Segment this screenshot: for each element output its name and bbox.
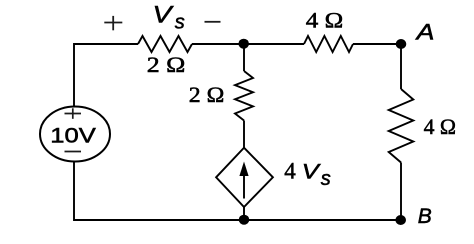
resistor R2 2ohm vertical zigzag	[235, 71, 253, 121]
value label 4Vs for dependent source	[284, 158, 331, 190]
junction dot bottom center node	[239, 215, 250, 225]
wire node A down to resistor R4	[400, 44, 402, 89]
voltage source V1 ellipse	[40, 107, 110, 162]
wire center node to resistor R3	[244, 43, 304, 45]
svg-text:s: s	[321, 168, 331, 190]
wire R1 to center node	[192, 43, 244, 45]
wire R3 to node A	[353, 43, 401, 45]
svg-text:10V: 10V	[50, 124, 95, 147]
svg-text:4 Ω: 4 Ω	[424, 114, 456, 139]
junction dot center top node	[238, 39, 249, 49]
source plus sign	[65, 108, 82, 119]
wire R4 to node B	[400, 163, 402, 221]
label Vs	[153, 2, 185, 34]
wire top-left horizontal from source corner to resistor R1	[74, 44, 138, 107]
dependent source arrow up	[239, 162, 248, 199]
minus polarity mark for Vs	[205, 21, 221, 23]
svg-text:V: V	[302, 160, 321, 183]
source minus sign	[65, 151, 82, 153]
svg-text:2 Ω: 2 Ω	[147, 52, 186, 77]
wire center node down to resistor R2	[243, 44, 245, 71]
svg-text:4: 4	[284, 158, 296, 183]
plus polarity mark for Vs	[104, 16, 122, 30]
svg-text:B: B	[418, 205, 432, 228]
resistor R1 2ohm horizontal zigzag	[138, 36, 192, 52]
svg-text:4 Ω: 4 Ω	[306, 8, 343, 33]
resistor R4 4ohm vertical zigzag	[389, 89, 414, 163]
resistor R3 4ohm horizontal zigzag	[304, 36, 353, 52]
wire R2 to dependent source	[243, 121, 245, 149]
dependent current source D1 diamond	[216, 148, 273, 207]
wire source bottom to bottom-left corner	[74, 162, 244, 221]
svg-text:s: s	[175, 12, 185, 34]
svg-text:A: A	[414, 19, 434, 44]
bottom wire center to node B	[244, 219, 401, 221]
junction dot node A	[396, 39, 407, 49]
svg-text:V: V	[153, 2, 174, 29]
wire diamond bottom to bottom node	[243, 207, 245, 220]
junction dot node B	[395, 215, 406, 225]
svg-text:2 Ω: 2 Ω	[189, 82, 225, 107]
